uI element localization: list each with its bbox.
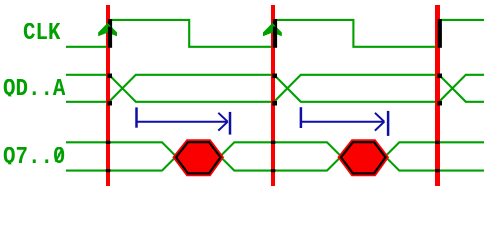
- Q7..0 rail crossing dots at cursor 3: [435, 141, 439, 144]
- measurement arrow B line: [302, 121, 385, 123]
- conflict hexagon 2 on Q7..0 (red halo): [341, 142, 386, 173]
- measurement arrow B left tick: [300, 107, 303, 128]
- measurement arrow A head: [218, 113, 227, 122]
- clock-edge arrow head at cursor 2: [263, 23, 282, 36]
- label Q7..0: [3, 147, 65, 165]
- measurement arrow A line: [137, 121, 228, 123]
- CLK rising edge mark at cursor 1: [108, 19, 112, 48]
- Q7..0 rail crossing dots at cursor 2: [271, 141, 275, 144]
- cursor 1 (red vertical line): [106, 5, 110, 187]
- clock-edge arrow head at cursor 1: [98, 23, 117, 36]
- bus QD..A rail path 2: [66, 75, 484, 102]
- cursor 3 (red vertical line): [435, 5, 439, 187]
- QD..A bend dots at cursor 1: [107, 74, 112, 79]
- label QD..A: [3, 79, 65, 97]
- bus Q7..0 rail path 1: [66, 142, 484, 170]
- slash of zero glyph in Q7..0: [56, 151, 62, 162]
- bus Q7..0 rail path 2: [66, 142, 484, 170]
- cursor 2 (red vertical line): [271, 5, 275, 187]
- Q7..0 rail crossing dots at cursor 1: [106, 141, 110, 144]
- CLK rising edge mark at cursor 2: [273, 19, 277, 48]
- label CLK: [23, 23, 60, 41]
- conflict hexagon 1 on Q7..0 (red fill, black outline): [176, 142, 221, 173]
- measurement arrow B right tick: [387, 111, 390, 136]
- CLK rising edge mark at cursor 3: [438, 19, 442, 48]
- arrow tip overdraw cursor 2: [269, 23, 276, 27]
- conflict hexagon 1 on Q7..0 (red halo): [176, 142, 221, 173]
- arrow tip overdraw cursor 1: [104, 23, 111, 27]
- measurement arrow B head: [375, 113, 384, 122]
- conflict hexagon 2 on Q7..0 (red fill, black outline): [341, 142, 386, 173]
- measurement arrow A left tick: [135, 107, 138, 127]
- QD..A bend dots at cursor 2: [272, 74, 277, 79]
- measurement arrow A right tick: [229, 112, 232, 135]
- bus QD..A rail path 1: [66, 75, 484, 102]
- signal CLK waveform: [66, 20, 484, 47]
- QD..A bend dots at cursor 3: [437, 74, 442, 79]
